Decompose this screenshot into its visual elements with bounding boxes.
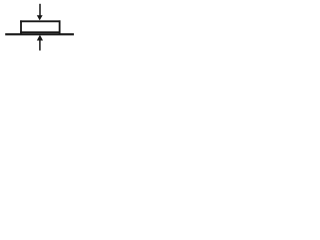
wire (5, 33, 74, 35)
pressure transducer symbol (0, 0, 79, 55)
bottom force arrowhead (37, 35, 43, 41)
element body left edge (20, 20, 22, 35)
element body bottom edge (20, 31, 60, 33)
element body right edge (59, 20, 61, 35)
bottom force arrow shaft (39, 40, 41, 51)
top force arrow shaft (39, 4, 41, 16)
element body (rectangle) top edge (20, 20, 60, 22)
top force arrowhead (37, 15, 43, 20)
